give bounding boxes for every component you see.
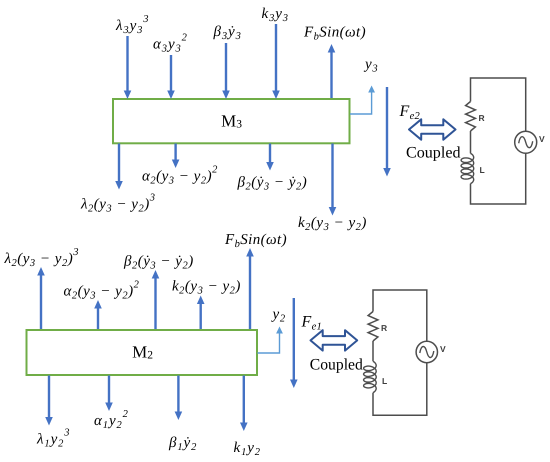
label Fe1: [301, 314, 323, 333]
label alpha2(y3-y2)^2: [142, 165, 218, 187]
label beta1*y2dot: [168, 435, 197, 453]
force arrow lambda1*y2^3 (down from M2): [45, 376, 53, 426]
displacement direction arrow y3 (long down): [383, 87, 391, 177]
force arrow alpha1*y2^2 (down from M2): [105, 376, 113, 412]
label M2: [132, 343, 153, 362]
label Coupled bottom: [310, 357, 363, 374]
svg-text:y2: y2: [271, 307, 286, 325]
label beta2(y3dot-y2dot): [237, 175, 308, 193]
label Coupled top: [406, 145, 461, 162]
force arrow beta2 (up out of M2): [152, 270, 160, 329]
label M3: [221, 112, 242, 131]
displacement direction arrow y2 (long down): [290, 298, 298, 388]
svg-text:y3: y3: [363, 57, 378, 75]
svg-text:V: V: [539, 134, 545, 144]
mass block M3: [113, 99, 350, 143]
svg-text:λ2(y3 − y2)3: λ2(y3 − y2)3: [4, 247, 79, 269]
circuit 1 wire loop: [471, 78, 526, 204]
svg-text:α1y22: α1y22: [94, 409, 129, 431]
svg-text:β2(ẏ3 − ẏ2): β2(ẏ3 − ẏ2): [123, 254, 194, 272]
svg-text:λ1y23: λ1y23: [36, 428, 70, 450]
svg-text:k3y3: k3y3: [262, 6, 289, 24]
displacement connector y3 (elbow from M3): [350, 86, 375, 115]
label y2: [271, 307, 286, 325]
label lambda3*y3^3: [115, 14, 149, 36]
label beta2(y3dot-y2dot) M2: [123, 254, 194, 272]
force arrow lambda2 (down from M3 bottom): [115, 144, 123, 190]
label k1*y2: [234, 440, 261, 458]
svg-text:λ3y33: λ3y33: [115, 14, 149, 36]
svg-text:β3ẏ3: β3ẏ3: [213, 24, 242, 42]
label beta3*y3dot: [213, 24, 242, 42]
force arrow beta1*y2dot (down from M2): [175, 376, 183, 421]
svg-text:FbSin(ωt): FbSin(ωt): [224, 232, 287, 250]
svg-text:k2(y3 − y2): k2(y3 − y2): [172, 279, 241, 297]
force arrow beta3*y3dot (down into M3): [222, 43, 230, 99]
label k3*y3: [262, 6, 289, 24]
displacement connector y2 (elbow from M2): [258, 327, 283, 354]
label Fe2: [399, 103, 421, 122]
svg-text:L: L: [382, 376, 387, 386]
label lambda1*y2^3: [36, 428, 70, 450]
force arrow lambda2 (up out of M2): [37, 267, 45, 329]
svg-text:Coupled: Coupled: [310, 357, 363, 374]
svg-text:V: V: [440, 344, 446, 354]
coupled double arrow bottom: [311, 330, 358, 350]
svg-text:α3y32: α3y32: [153, 33, 188, 55]
inductor L circuit 2: [364, 361, 377, 392]
svg-text:Fe2: Fe2: [399, 103, 421, 122]
svg-text:R: R: [479, 113, 485, 123]
AC source V circuit 1: [515, 131, 537, 153]
label lambda2(y3-y2)^3: [80, 193, 155, 215]
svg-text:L: L: [480, 165, 485, 175]
label L circuit 2: [382, 376, 387, 386]
force arrow lambda3*y3^3 (down into M3): [124, 36, 132, 99]
label R circuit 2: [381, 323, 387, 333]
svg-text:R: R: [381, 323, 387, 333]
label y3: [363, 57, 378, 75]
mass block M2: [27, 330, 258, 375]
force arrow k2 (down from M3 bottom): [329, 144, 337, 216]
label V circuit 1: [539, 134, 545, 144]
resistor R circuit 2: [368, 312, 378, 342]
label alpha3*y3^2: [153, 33, 188, 55]
label alpha2(y3-y2)^2 M2: [64, 280, 140, 302]
force arrow Fb*Sin(wt) (up out of M3 top): [328, 44, 336, 98]
label Fb*Sin(wt) M2: [224, 232, 287, 250]
force arrow k1*y2 (down from M2): [240, 376, 248, 432]
force arrow Fb*Sin(wt) (up out of M2): [246, 248, 254, 329]
force arrow k3*y3 (down into M3): [272, 24, 280, 99]
force arrow alpha3*y3^2 (down into M3): [167, 55, 175, 99]
label lambda2(y3-y2)^3 M2: [4, 247, 79, 269]
svg-text:β2(ẏ3 − ẏ2): β2(ẏ3 − ẏ2): [237, 175, 308, 193]
label L circuit 1: [480, 165, 485, 175]
label alpha1*y2^2: [94, 409, 129, 431]
label k2(y3-y2): [298, 215, 367, 233]
label V circuit 2: [440, 344, 446, 354]
svg-text:Coupled: Coupled: [406, 145, 461, 162]
svg-text:α2(y3 − y2)2: α2(y3 − y2)2: [64, 280, 140, 302]
svg-text:k2(y3 − y2): k2(y3 − y2): [298, 215, 367, 233]
inductor L circuit 1: [461, 153, 474, 183]
label R circuit 1: [479, 113, 485, 123]
coupled double arrow top: [409, 119, 456, 139]
force arrow alpha2 (down from M3 bottom): [172, 144, 180, 169]
svg-text:λ2(y3 − y2)3: λ2(y3 − y2)3: [80, 193, 155, 215]
svg-text:α2(y3 − y2)2: α2(y3 − y2)2: [142, 165, 218, 187]
svg-text:k1y2: k1y2: [234, 440, 261, 458]
svg-text:FbSin(ωt): FbSin(ωt): [303, 25, 366, 43]
AC source V circuit 2: [416, 341, 437, 362]
svg-text:β1ẏ2: β1ẏ2: [168, 435, 197, 453]
resistor R circuit 1: [466, 102, 476, 132]
force arrow alpha2 (up out of M2): [94, 300, 102, 329]
force arrow k2 (up out of M2): [197, 296, 205, 330]
svg-text:Fe1: Fe1: [301, 314, 323, 333]
circuit 2 wire loop: [373, 290, 427, 415]
label k2(y3-y2) M2: [172, 279, 241, 297]
label Fb*Sin(wt) top: [303, 25, 366, 43]
force arrow beta2 (down from M3 bottom): [266, 144, 274, 171]
